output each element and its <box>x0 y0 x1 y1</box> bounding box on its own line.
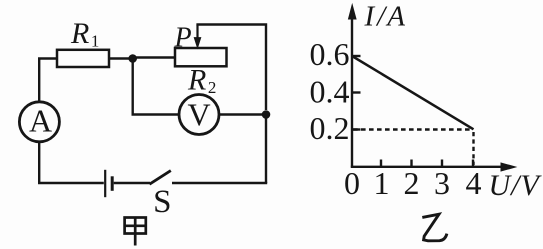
x axis ticks <box>381 160 473 169</box>
graph x axis (U) <box>351 163 516 171</box>
dashed vertical at U=4 <box>472 132 474 165</box>
svg-text:A: A <box>29 103 52 139</box>
svg-text:0: 0 <box>344 165 360 201</box>
wire left loop: R1 left lead and left vertical down to ammeter <box>39 59 58 102</box>
svg-text:I/A: I/A <box>364 1 406 33</box>
voltmeter V <box>179 95 219 135</box>
wire voltmeter right lead to right node <box>220 113 262 115</box>
label jia (Chinese: figure 1) <box>125 218 146 246</box>
slider arrow of rheostat <box>194 25 200 48</box>
wire battery to switch <box>114 182 150 184</box>
node junction right (dot) <box>262 110 271 119</box>
y axis ticks <box>352 56 361 130</box>
wire right node down to bottom-right corner <box>265 115 267 184</box>
svg-text:S: S <box>153 184 171 220</box>
wire slider top to right vertical down to right node <box>196 25 266 111</box>
wire left node to rheostat left terminal <box>133 56 175 58</box>
resistor R1 <box>57 50 109 67</box>
svg-text:0.4: 0.4 <box>310 73 350 109</box>
wire left node down and across to voltmeter left lead <box>133 59 178 115</box>
ammeter A <box>19 102 59 142</box>
svg-text:R1: R1 <box>70 17 99 51</box>
svg-text:0.6: 0.6 <box>310 36 350 72</box>
dashed horizontal at I=0.2 <box>353 128 471 130</box>
battery cell: long plate <box>104 170 106 197</box>
svg-text:P: P <box>174 23 192 54</box>
graph y axis (I) <box>349 5 357 168</box>
svg-text:1: 1 <box>374 165 390 201</box>
svg-text:2: 2 <box>404 165 420 201</box>
svg-text:R2: R2 <box>187 64 216 98</box>
I-U characteristic line <box>352 56 474 129</box>
svg-text:U/V: U/V <box>489 169 543 202</box>
svg-text:0.2: 0.2 <box>310 110 350 146</box>
rheostat R2 body <box>175 48 227 66</box>
svg-text:V: V <box>187 96 210 132</box>
battery cell: short plate <box>111 176 114 191</box>
wire switch to bottom-right corner <box>172 182 267 184</box>
wire R1 right lead to left node <box>109 57 132 59</box>
switch S blade <box>150 171 171 185</box>
wire ammeter bottom to battery <box>39 142 104 183</box>
node junction left (dot) <box>128 54 137 63</box>
label yi (Chinese: figure 2) <box>422 214 447 241</box>
svg-text:3: 3 <box>434 165 450 201</box>
svg-text:4: 4 <box>466 165 482 201</box>
